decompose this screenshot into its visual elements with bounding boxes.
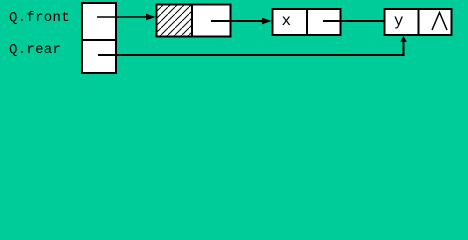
node3 divider [418, 9, 420, 35]
front pointer wire [97, 16, 147, 18]
node1 next wire [211, 20, 263, 22]
node1 next arrowhead [262, 18, 272, 25]
node1 divider [191, 5, 193, 37]
svg-text:Q.rear: Q.rear [9, 42, 61, 58]
queue header box Q [82, 3, 116, 73]
rear pointer wire horizontal [98, 54, 405, 56]
front pointer arrowhead [146, 14, 156, 21]
node2 next wire [323, 20, 385, 22]
node2 box [273, 9, 341, 35]
node1 hatched data cell [158, 6, 192, 36]
svg-text:Q.front: Q.front [9, 10, 70, 26]
svg-text:y: y [394, 12, 404, 30]
node2 divider [306, 9, 308, 35]
node3 box [385, 9, 452, 35]
node1 box [157, 5, 231, 37]
queue header divider [81, 39, 117, 41]
node3 null symbol [432, 13, 447, 31]
svg-text:x: x [282, 12, 292, 30]
rear pointer arrowhead [400, 36, 407, 42]
rear pointer wire vertical [403, 41, 405, 56]
